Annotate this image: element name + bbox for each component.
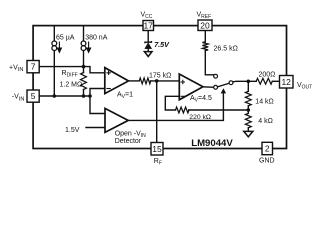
svg-text:65 µA: 65 µA	[56, 34, 75, 41]
svg-text:14 kΩ: 14 kΩ	[255, 98, 273, 105]
svg-text:GND: GND	[259, 157, 275, 164]
svg-text:380 nA: 380 nA	[85, 34, 108, 41]
svg-text:15: 15	[152, 144, 162, 154]
svg-text:7.5V: 7.5V	[154, 40, 170, 49]
svg-text:2: 2	[265, 144, 270, 154]
svg-text:17: 17	[143, 21, 153, 31]
svg-text:LM9044V: LM9044V	[191, 138, 233, 149]
svg-text:1.2 MΩ: 1.2 MΩ	[60, 81, 83, 88]
svg-text:220 kΩ: 220 kΩ	[189, 114, 211, 121]
svg-text:12: 12	[281, 77, 291, 87]
svg-text:26.5 kΩ: 26.5 kΩ	[214, 45, 238, 52]
svg-text:200Ω: 200Ω	[259, 72, 276, 79]
svg-text:175 kΩ: 175 kΩ	[149, 72, 171, 79]
svg-text:5: 5	[31, 91, 36, 101]
svg-text:20: 20	[200, 20, 210, 30]
svg-text:7: 7	[31, 62, 36, 72]
svg-text:4 kΩ: 4 kΩ	[258, 118, 273, 125]
svg-text:Detector: Detector	[115, 138, 142, 145]
svg-text:1.5V: 1.5V	[65, 127, 80, 134]
